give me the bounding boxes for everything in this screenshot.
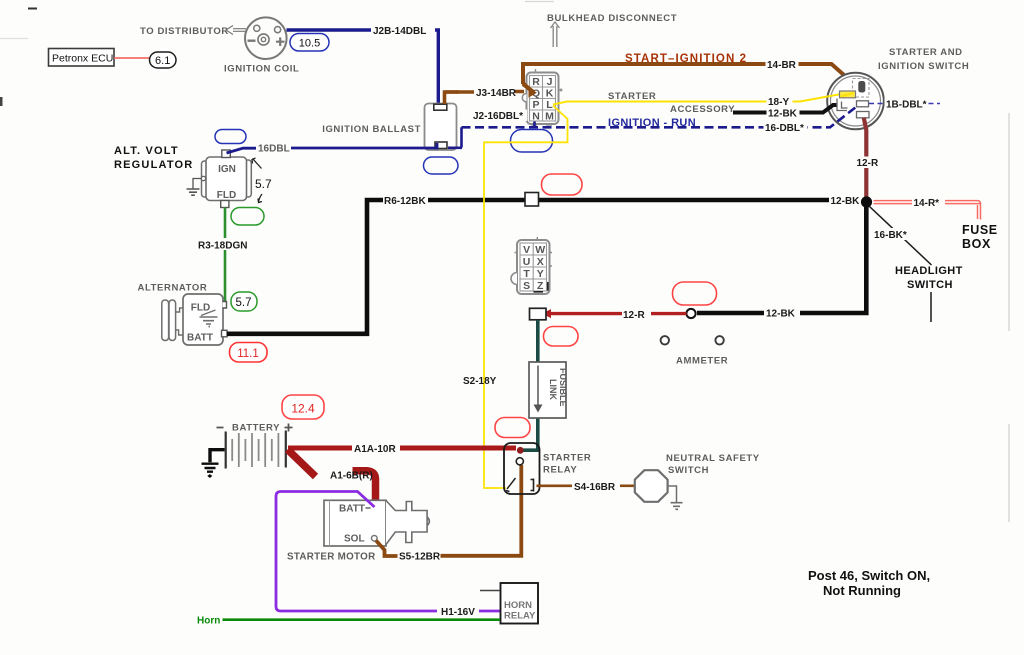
svg-text:R3-18DGN: R3-18DGN bbox=[198, 241, 247, 252]
svg-text:SWITCH: SWITCH bbox=[907, 279, 953, 291]
svg-text:12-R: 12-R bbox=[857, 158, 879, 169]
callout 6.1 bbox=[150, 52, 177, 68]
svg-text:Y: Y bbox=[537, 268, 544, 280]
label S4-16BR bbox=[574, 482, 616, 493]
svg-text:U: U bbox=[523, 256, 531, 268]
svg-text:A1-6B(R): A1-6B(R) bbox=[330, 471, 373, 482]
junction node bbox=[861, 196, 872, 207]
ground (regulator) bbox=[187, 179, 202, 196]
svg-text:BATTERY: BATTERY bbox=[232, 423, 280, 434]
svg-text:Horn: Horn bbox=[197, 616, 220, 627]
wire 14-R* (junction to fuse box) bbox=[874, 201, 981, 220]
wire 12-BK accessory (black to switch) bbox=[733, 105, 837, 113]
label FUSE BOX bbox=[962, 223, 998, 251]
wire 12-R red (terminal to connector) bbox=[542, 309, 687, 318]
svg-text:IGNITION BALLAST: IGNITION BALLAST bbox=[322, 124, 421, 135]
callout red empty (above starter relay) bbox=[495, 418, 530, 438]
label AMMETER bbox=[676, 356, 728, 367]
fusible link bbox=[529, 362, 568, 418]
ground (battery) bbox=[202, 450, 225, 478]
svg-text:12-R: 12-R bbox=[623, 310, 645, 321]
svg-text:W: W bbox=[535, 244, 545, 256]
svg-text:ACCESSORY: ACCESSORY bbox=[670, 104, 735, 115]
callout red empty (below 12-R connector) bbox=[544, 327, 579, 347]
wire 18-Y (yellow starter wire) bbox=[553, 94, 844, 105]
svg-text:K: K bbox=[546, 88, 554, 100]
connector V W U X T Y S Z bbox=[511, 237, 552, 294]
callout 10.5 bbox=[290, 34, 329, 52]
svg-text:Z: Z bbox=[537, 280, 544, 292]
svg-text:ALTERNATOR: ALTERNATOR bbox=[138, 283, 208, 294]
ignition switch body bbox=[827, 73, 884, 130]
label TO DISTRIBUTOR bbox=[140, 26, 229, 37]
svg-text:BULKHEAD DISCONNECT: BULKHEAD DISCONNECT bbox=[547, 13, 677, 24]
svg-text:L: L bbox=[546, 99, 553, 111]
callout green empty (below regulator) bbox=[231, 208, 264, 226]
svg-text:BOX: BOX bbox=[962, 237, 991, 251]
label START-IGNITION 2 bbox=[625, 53, 747, 65]
svg-text:16DBL: 16DBL bbox=[258, 144, 290, 155]
label A1A-10R bbox=[354, 444, 396, 455]
alternator bbox=[162, 294, 227, 345]
label H1-16V bbox=[441, 607, 475, 618]
svg-text:STARTER: STARTER bbox=[608, 91, 656, 102]
wire 12-BK lower (junction down and left to ammeter terminal) bbox=[697, 202, 866, 313]
svg-text:Post 46, Switch ON,: Post 46, Switch ON, bbox=[808, 568, 930, 583]
svg-text:SOL: SOL bbox=[344, 534, 365, 545]
svg-text:FUSE: FUSE bbox=[962, 223, 998, 237]
svg-text:LINK: LINK bbox=[548, 379, 558, 400]
svg-text:J3-14BR: J3-14BR bbox=[476, 88, 517, 99]
label ALTERNATOR bbox=[138, 283, 208, 294]
label 12-R (ammeter wire) bbox=[623, 310, 645, 321]
wire R3-18DGN (regulator FLD to alternator FLD) bbox=[224, 208, 227, 309]
svg-text:P: P bbox=[532, 99, 539, 111]
wire 12-R maroon (switch to junction) bbox=[864, 118, 867, 198]
label STARTER RELAY bbox=[543, 453, 591, 476]
wire A1-6B(R) (battery to starter motor BATT) bbox=[288, 450, 379, 511]
callout 12.4 (red) bbox=[282, 395, 324, 419]
label Horn bbox=[197, 616, 220, 627]
svg-text:12.4: 12.4 bbox=[291, 402, 315, 416]
svg-text:J2-16DBL*: J2-16DBL* bbox=[473, 111, 523, 122]
terminal circle (wire junction at ammeter feed) bbox=[686, 309, 695, 318]
wire 16-BK* (junction to headlight switch) bbox=[870, 207, 932, 323]
svg-text:14-BR: 14-BR bbox=[767, 60, 797, 71]
callout blue empty (above regulator) bbox=[215, 130, 246, 144]
label 12-R (switch) bbox=[855, 157, 883, 170]
wire J3-14BR (ballast to bulkhead Q) bbox=[445, 88, 525, 104]
svg-text:S5-12BR: S5-12BR bbox=[399, 552, 441, 563]
callout 11.1 (red) bbox=[230, 343, 268, 363]
svg-text:REGULATOR: REGULATOR bbox=[114, 159, 193, 171]
svg-text:6.1: 6.1 bbox=[155, 55, 170, 67]
svg-text:R6-12BK: R6-12BK bbox=[384, 196, 426, 207]
bulkhead connector R J Q K P L N M bbox=[522, 69, 562, 125]
svg-text:16-BK*: 16-BK* bbox=[874, 230, 907, 241]
label 12-BK (lower) bbox=[765, 307, 799, 320]
alt volt regulator bbox=[201, 150, 251, 208]
label 16DBL bbox=[258, 144, 290, 155]
svg-text:18-Y: 18-Y bbox=[768, 97, 789, 108]
svg-text:TO DISTRIBUTOR: TO DISTRIBUTOR bbox=[140, 26, 229, 37]
label 16-BK* bbox=[873, 228, 912, 241]
neutral safety switch bbox=[635, 470, 668, 502]
starter motor bbox=[324, 500, 429, 546]
connector square on wire (bulkhead pass-through) bbox=[525, 193, 539, 207]
wire Petronx ECU to 6.1 callout bbox=[114, 57, 152, 59]
svg-text:11.1: 11.1 bbox=[237, 348, 259, 360]
ignition coil bbox=[245, 17, 287, 59]
wire S4-16BR (relay to neutral safety switch) bbox=[537, 484, 635, 487]
svg-text:10.5: 10.5 bbox=[299, 38, 320, 50]
ground (neutral safety switch) bbox=[668, 486, 683, 509]
svg-text:STARTER: STARTER bbox=[543, 453, 591, 464]
svg-text:12-BK: 12-BK bbox=[768, 109, 798, 120]
label ALT. VOLT REGULATOR bbox=[114, 145, 193, 171]
svg-text:M: M bbox=[545, 111, 554, 123]
Petronx ECU box bbox=[49, 49, 115, 67]
label NEUTRAL SAFETY SWITCH bbox=[666, 453, 760, 476]
svg-text:HEADLIGHT: HEADLIGHT bbox=[895, 265, 963, 277]
label BATTERY with polarity bbox=[217, 423, 293, 434]
wire 1B-DBL* dashed bbox=[869, 103, 940, 105]
wire 14-BR (bulkhead to ignition switch) bbox=[523, 64, 858, 93]
bulkhead disconnect symbol bbox=[551, 22, 560, 47]
connector box (S2 feed) bbox=[530, 308, 547, 320]
svg-text:IGNITION COIL: IGNITION COIL bbox=[224, 64, 299, 75]
svg-text:FUSIBLE: FUSIBLE bbox=[558, 368, 568, 407]
svg-text:1B-DBL*: 1B-DBL* bbox=[886, 100, 927, 111]
label 1B-DBL* bbox=[885, 98, 929, 111]
wire purple (BATT terminal to horn relay) bbox=[276, 492, 501, 612]
svg-text:J: J bbox=[547, 76, 553, 88]
svg-text:12-BK: 12-BK bbox=[831, 196, 861, 207]
svg-text:AMMETER: AMMETER bbox=[676, 356, 728, 367]
svg-text:RELAY: RELAY bbox=[504, 611, 536, 622]
label HEADLIGHT SWITCH bbox=[895, 265, 963, 291]
label STARTER AND IGNITION SWITCH bbox=[878, 47, 969, 72]
svg-text:V: V bbox=[523, 244, 530, 256]
svg-text:R: R bbox=[532, 76, 540, 88]
horn relay bbox=[480, 310, 876, 624]
svg-text:RELAY: RELAY bbox=[543, 465, 577, 476]
svg-text:S: S bbox=[523, 280, 530, 292]
label 12-BK bbox=[767, 107, 800, 120]
wire green Horn bbox=[223, 618, 501, 621]
svg-text:16-DBL*: 16-DBL* bbox=[765, 123, 804, 134]
wire R6-12BK (alternator BATT to junction) bbox=[227, 200, 860, 334]
label STARTER bbox=[608, 91, 656, 102]
svg-text:ALT. VOLT: ALT. VOLT bbox=[114, 145, 179, 157]
svg-text:H1-16V: H1-16V bbox=[441, 607, 475, 618]
label S5-12BR bbox=[399, 552, 441, 563]
svg-text:5.7: 5.7 bbox=[255, 177, 272, 191]
ignition ballast bbox=[425, 104, 457, 151]
callout blue empty (below bulkhead) bbox=[511, 130, 553, 153]
label 12-BK (main wire) bbox=[829, 194, 862, 207]
svg-text:S4-16BR: S4-16BR bbox=[574, 482, 616, 493]
svg-text:BATT: BATT bbox=[339, 504, 365, 515]
svg-text:HORN: HORN bbox=[504, 600, 532, 611]
wire S5-12BR (SOL to starter relay) bbox=[376, 465, 521, 556]
label STARTER MOTOR bbox=[287, 552, 375, 563]
wire A1A-10R (battery to starter relay) bbox=[288, 447, 524, 454]
scan artifact lines bbox=[0, 2, 1009, 523]
label 14-BR bbox=[766, 59, 799, 72]
label 14-R* bbox=[912, 197, 945, 210]
svg-text:IGN: IGN bbox=[218, 164, 236, 175]
svg-text:N: N bbox=[532, 111, 540, 123]
label A1-6B(R) bbox=[330, 471, 373, 482]
label BULKHEAD DISCONNECT bbox=[547, 13, 677, 24]
callout red empty (above ammeter) bbox=[673, 282, 717, 305]
label R3-18DGN bbox=[198, 241, 247, 252]
label IGNITION - RUN bbox=[608, 117, 696, 129]
svg-text:BATT: BATT bbox=[187, 333, 213, 344]
callout red empty (right of bulkhead, upper) bbox=[542, 174, 583, 195]
svg-text:IGNITION SWITCH: IGNITION SWITCH bbox=[878, 61, 969, 72]
callout 5.7 (green, alternator) bbox=[231, 292, 257, 311]
svg-text:SWITCH: SWITCH bbox=[668, 465, 709, 476]
label 16-DBL* bbox=[764, 122, 808, 135]
ignition switch contacts bbox=[837, 79, 869, 118]
svg-text:S2-18Y: S2-18Y bbox=[463, 376, 497, 387]
annotation 5.7 with pen arrows bbox=[252, 158, 272, 203]
svg-text:Not Running: Not Running bbox=[823, 583, 901, 598]
distributor arrow bbox=[226, 26, 246, 35]
label R6-12BK bbox=[384, 196, 426, 207]
note Post 46, Switch ON, Not Running bbox=[808, 568, 930, 598]
svg-text:STARTER MOTOR: STARTER MOTOR bbox=[287, 552, 375, 563]
starter relay bbox=[504, 443, 540, 494]
wire 16-DBL* dashed (ballast/bulkhead N to switch) bbox=[448, 107, 856, 148]
svg-text:A1A-10R: A1A-10R bbox=[354, 444, 396, 455]
svg-text:STARTER AND: STARTER AND bbox=[889, 47, 963, 58]
svg-text:12-BK: 12-BK bbox=[766, 309, 796, 320]
svg-text:Petronx ECU: Petronx ECU bbox=[52, 53, 113, 65]
ground (alternator internal) bbox=[200, 310, 218, 327]
svg-text:J2B-14DBL: J2B-14DBL bbox=[373, 26, 426, 37]
ammeter bbox=[661, 336, 724, 344]
label 18-Y bbox=[767, 96, 793, 109]
wire J2B-14DBL (coil to ballast) bbox=[287, 24, 439, 104]
callout blue empty (below ballast) bbox=[424, 157, 459, 174]
wire 16DBL (regulator to ballast) bbox=[227, 143, 438, 153]
label ACCESSORY bbox=[670, 104, 735, 115]
label IGNITION BALLAST bbox=[322, 124, 421, 135]
label IGNITION COIL bbox=[224, 64, 299, 75]
svg-text:T: T bbox=[523, 268, 530, 280]
svg-text:FLD: FLD bbox=[191, 303, 210, 314]
svg-text:FLD: FLD bbox=[217, 190, 236, 201]
wire teal (connector to fusible link to relay) bbox=[522, 320, 538, 450]
label J2-16DBL* bbox=[472, 110, 527, 123]
svg-text:5.7: 5.7 bbox=[236, 297, 252, 309]
wire S2-18Y (yellow long run) bbox=[484, 106, 568, 489]
svg-text:14-R*: 14-R* bbox=[914, 198, 940, 209]
battery plates bbox=[226, 431, 286, 469]
svg-text:X: X bbox=[537, 256, 544, 268]
label S2-18Y bbox=[463, 376, 497, 387]
svg-text:NEUTRAL SAFETY: NEUTRAL SAFETY bbox=[666, 453, 760, 464]
